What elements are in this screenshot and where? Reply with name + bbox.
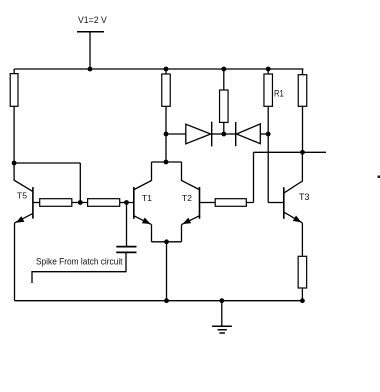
- wire T2 base: [200, 202, 216, 204]
- wire T2 base resistor to feedback riser: [246, 152, 253, 202]
- resistor middle (T1/T2 collector load): [162, 74, 171, 106]
- wire R1 to T3 base: [267, 106, 269, 202]
- voltage source V1 bar: [77, 31, 104, 33]
- node collector tie junction: [164, 160, 169, 165]
- wire T2 emitter down: [181, 225, 183, 242]
- node emitter line on bottom rail: [164, 298, 169, 303]
- resistor right (T3 collector feed): [298, 75, 307, 107]
- wire T1 emitter down: [151, 225, 153, 242]
- transistor T2 emitter: [182, 216, 200, 225]
- wire T3 collector: [284, 152, 302, 193]
- edge artifact mark: [378, 176, 380, 179]
- svg-text:V1=2 V: V1=2 V: [78, 15, 107, 26]
- wire T3 base: [268, 202, 284, 204]
- transistor T5 base bar: [32, 187, 34, 219]
- wire rail to middle resistor: [165, 69, 167, 74]
- transistor T3 emitter arrow: [293, 216, 302, 223]
- wire T3 emitter resistor to bottom rail: [301, 288, 303, 301]
- diode D1 cathode bar: [211, 122, 213, 147]
- node diode-feed resistor rail junction: [221, 67, 226, 72]
- transistor T5 emitter arrow: [16, 216, 25, 223]
- node R1 rail junction: [266, 67, 271, 72]
- diode D2 cathode bar: [235, 122, 237, 146]
- wire feedback line: [254, 151, 327, 153]
- wire rail to R1: [267, 69, 269, 74]
- wire rail to left resistor: [13, 69, 15, 74]
- wire chain B to T1 base node: [120, 202, 134, 204]
- wire center junction to D2: [224, 133, 236, 135]
- wire T5 emitter to bottom rail: [14, 223, 16, 301]
- wire V1 to rail: [89, 32, 91, 69]
- wire T3 emitter to resistor: [301, 223, 303, 256]
- svg-text:T3: T3: [299, 192, 310, 202]
- resistor base chain B: [88, 199, 120, 207]
- diode D1 (pointing right): [186, 124, 211, 144]
- diode D1 wire from collector line: [166, 133, 186, 135]
- resistor left (T5 collector): [10, 74, 18, 107]
- wire rail to diode-feed resistor: [223, 69, 225, 90]
- node bottom rail right end: [300, 298, 305, 303]
- wire left resistor to T5 node: [13, 106, 15, 163]
- svg-text:T2: T2: [182, 193, 192, 203]
- diode D2 (pointing left): [237, 124, 261, 144]
- wire ground lead: [221, 301, 223, 327]
- svg-text:T1: T1: [142, 193, 152, 203]
- svg-text:T5: T5: [17, 190, 27, 200]
- node diode tap on collector line: [164, 132, 169, 137]
- wire emitter tie to bottom rail: [166, 242, 168, 301]
- wire middle resistor to collector node: [165, 106, 167, 162]
- wire T5 node to resistor chain: [14, 163, 80, 203]
- transistor T2 emitter arrow: [183, 218, 192, 224]
- wire D2 to R1 line: [260, 133, 268, 135]
- wire T5 collector: [14, 163, 32, 191]
- node output junction: [300, 150, 305, 155]
- ground: [212, 326, 232, 333]
- wire capacitor to spike input: [32, 252, 126, 283]
- transistor T3 base bar: [283, 187, 285, 219]
- resistor T2 base: [215, 199, 246, 207]
- wire diode-feed resistor to diode junction: [223, 122, 225, 134]
- node emitter tie junction: [164, 239, 169, 244]
- resistor T3 emitter: [298, 256, 307, 288]
- transistor T3 emitter: [284, 212, 302, 223]
- resistor base chain A: [40, 199, 72, 207]
- svg-text:R1: R1: [274, 89, 284, 99]
- resistor diode feed (lower): [220, 90, 229, 122]
- node diode center junction: [221, 132, 226, 137]
- transistor T1 base bar: [133, 187, 135, 219]
- capacitor bottom plate: [116, 251, 136, 253]
- wire collector drop right: [182, 162, 200, 190]
- top rail wire: [14, 68, 303, 70]
- wire rail to right resistor: [302, 69, 304, 75]
- node chain midpoint: [78, 200, 83, 205]
- bottom rail wire: [15, 300, 303, 302]
- capacitor top plate: [116, 246, 136, 248]
- transistor T2 base bar: [199, 187, 201, 219]
- resistor R1: [264, 74, 273, 106]
- node middle resistor rail junction: [164, 67, 169, 72]
- wire right resistor to output node: [302, 106, 304, 152]
- svg-text:Spike From latch circuit: Spike From latch circuit: [36, 257, 123, 267]
- transistor T5 emitter: [15, 213, 33, 223]
- wire T1/T2 collector tie top: [152, 161, 182, 163]
- wire emitter tie bottom: [152, 241, 182, 243]
- wire between chain resistors: [72, 202, 88, 204]
- transistor T1 emitter: [134, 216, 151, 225]
- node T5 collector junction: [12, 161, 17, 166]
- node ground tap on bottom rail: [219, 298, 224, 303]
- transistor T1 emitter arrow: [142, 218, 151, 225]
- wire D1 to center junction: [212, 133, 224, 135]
- wire T1 base node to capacitor: [126, 203, 128, 247]
- node D2-R1 junction: [266, 132, 271, 137]
- node V1-rail junction: [88, 67, 93, 72]
- wire collector drop left: [134, 162, 151, 190]
- wire T5 base: [33, 202, 40, 204]
- node T1 base junction: [124, 200, 129, 205]
